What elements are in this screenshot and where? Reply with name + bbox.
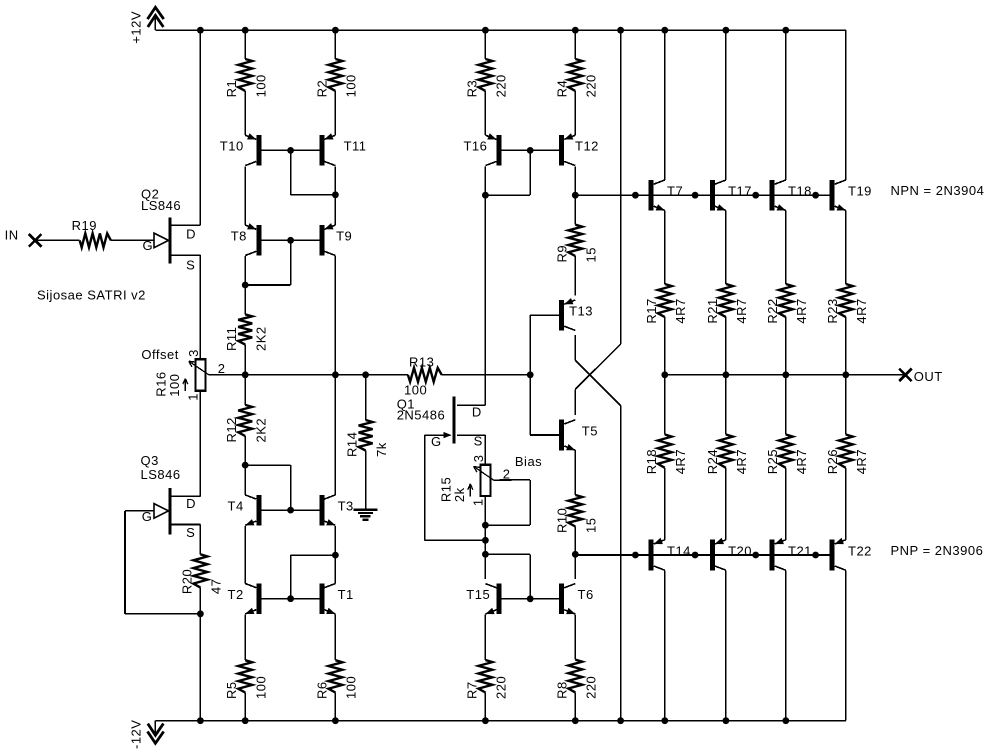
svg-text:15: 15	[584, 518, 599, 533]
svg-text:100: 100	[404, 383, 427, 398]
svg-text:G: G	[431, 434, 442, 449]
svg-text:1: 1	[471, 498, 486, 506]
svg-text:4R7: 4R7	[854, 449, 869, 474]
svg-text:2K2: 2K2	[254, 418, 269, 443]
svg-text:T1: T1	[338, 587, 354, 602]
svg-text:D: D	[472, 404, 482, 419]
svg-text:R4: R4	[554, 80, 569, 98]
svg-text:T19: T19	[848, 184, 872, 199]
svg-text:LS846: LS846	[141, 198, 181, 213]
svg-text:T17: T17	[728, 184, 752, 199]
svg-text:4R7: 4R7	[734, 298, 749, 323]
svg-text:R9: R9	[554, 245, 569, 263]
svg-text:T21: T21	[788, 543, 812, 558]
svg-text:S: S	[186, 525, 195, 540]
svg-text:D: D	[186, 226, 196, 241]
svg-text:R26: R26	[825, 449, 840, 474]
svg-text:Sijosae SATRI v2: Sijosae SATRI v2	[37, 288, 146, 303]
svg-text:G: G	[143, 238, 154, 253]
svg-text:D: D	[186, 496, 196, 511]
svg-text:15: 15	[584, 247, 599, 262]
svg-text:T3: T3	[338, 498, 354, 513]
svg-text:2N5486: 2N5486	[397, 407, 446, 422]
svg-text:T4: T4	[228, 498, 244, 513]
svg-text:220: 220	[584, 74, 599, 97]
svg-text:T20: T20	[728, 543, 752, 558]
svg-text:100: 100	[344, 74, 359, 97]
svg-text:R12: R12	[224, 417, 239, 442]
svg-text:T22: T22	[848, 543, 872, 558]
svg-text:T15: T15	[466, 587, 490, 602]
svg-text:S: S	[186, 257, 195, 272]
svg-text:2K2: 2K2	[254, 326, 269, 351]
svg-text:4R7: 4R7	[673, 298, 688, 323]
svg-text:T2: T2	[228, 587, 244, 602]
svg-text:R21: R21	[705, 298, 720, 323]
svg-text:LS846: LS846	[141, 467, 181, 482]
svg-text:R2: R2	[314, 80, 329, 98]
svg-text:R5: R5	[224, 681, 239, 699]
svg-text:IN: IN	[5, 228, 19, 243]
svg-text:4R7: 4R7	[794, 298, 809, 323]
svg-text:2k: 2k	[452, 487, 467, 502]
svg-text:R23: R23	[825, 298, 840, 323]
svg-text:3: 3	[471, 455, 486, 463]
svg-text:T18: T18	[788, 184, 812, 199]
svg-text:T10: T10	[220, 139, 244, 154]
svg-text:R10: R10	[554, 508, 569, 533]
svg-text:T11: T11	[344, 139, 367, 154]
svg-text:T14: T14	[667, 543, 691, 558]
svg-text:T5: T5	[582, 423, 598, 438]
svg-text:T13: T13	[569, 304, 593, 319]
svg-text:R18: R18	[644, 449, 659, 474]
svg-text:R13: R13	[409, 354, 434, 369]
svg-text:R8: R8	[554, 681, 569, 699]
svg-text:G: G	[142, 509, 153, 524]
svg-text:R6: R6	[314, 681, 329, 699]
svg-text:4R7: 4R7	[794, 449, 809, 474]
svg-text:T8: T8	[231, 229, 247, 244]
svg-text:1: 1	[186, 393, 201, 401]
svg-text:4R7: 4R7	[673, 449, 688, 474]
svg-text:T6: T6	[578, 587, 594, 602]
svg-text:R20: R20	[179, 569, 194, 594]
svg-text:R19: R19	[72, 218, 97, 233]
svg-text:-12V: -12V	[129, 720, 144, 749]
svg-text:100: 100	[167, 373, 182, 396]
svg-text:R24: R24	[705, 449, 720, 474]
svg-text:7k: 7k	[374, 442, 389, 457]
svg-text:R17: R17	[644, 298, 659, 323]
svg-text:2: 2	[503, 466, 511, 481]
svg-text:R7: R7	[464, 681, 479, 699]
svg-text:T7: T7	[667, 184, 683, 199]
svg-text:3: 3	[186, 349, 201, 357]
svg-text:R1: R1	[224, 80, 239, 98]
svg-text:R22: R22	[765, 298, 780, 323]
svg-text:4R7: 4R7	[734, 449, 749, 474]
svg-text:T16: T16	[463, 139, 487, 154]
svg-text:100: 100	[344, 676, 359, 699]
svg-text:Bias: Bias	[515, 454, 542, 469]
svg-text:220: 220	[494, 676, 509, 699]
svg-text:S: S	[474, 433, 483, 448]
svg-text:100: 100	[254, 74, 269, 97]
svg-text:+12V: +12V	[129, 11, 144, 44]
svg-text:R25: R25	[765, 449, 780, 474]
svg-text:2: 2	[218, 361, 226, 376]
svg-text:R14: R14	[345, 432, 360, 457]
svg-text:R3: R3	[464, 80, 479, 98]
svg-text:4R7: 4R7	[854, 298, 869, 323]
svg-text:T12: T12	[575, 139, 599, 154]
svg-text:47: 47	[209, 579, 224, 594]
svg-text:T9: T9	[336, 229, 352, 244]
svg-text:220: 220	[494, 74, 509, 97]
svg-text:Offset: Offset	[141, 347, 178, 362]
svg-text:NPN = 2N3904: NPN = 2N3904	[891, 183, 985, 198]
svg-text:PNP = 2N3906: PNP = 2N3906	[891, 543, 984, 558]
svg-text:OUT: OUT	[914, 369, 943, 384]
svg-text:220: 220	[584, 676, 599, 699]
svg-text:Q3: Q3	[141, 453, 159, 468]
svg-text:R11: R11	[224, 327, 239, 351]
svg-text:100: 100	[254, 676, 269, 699]
